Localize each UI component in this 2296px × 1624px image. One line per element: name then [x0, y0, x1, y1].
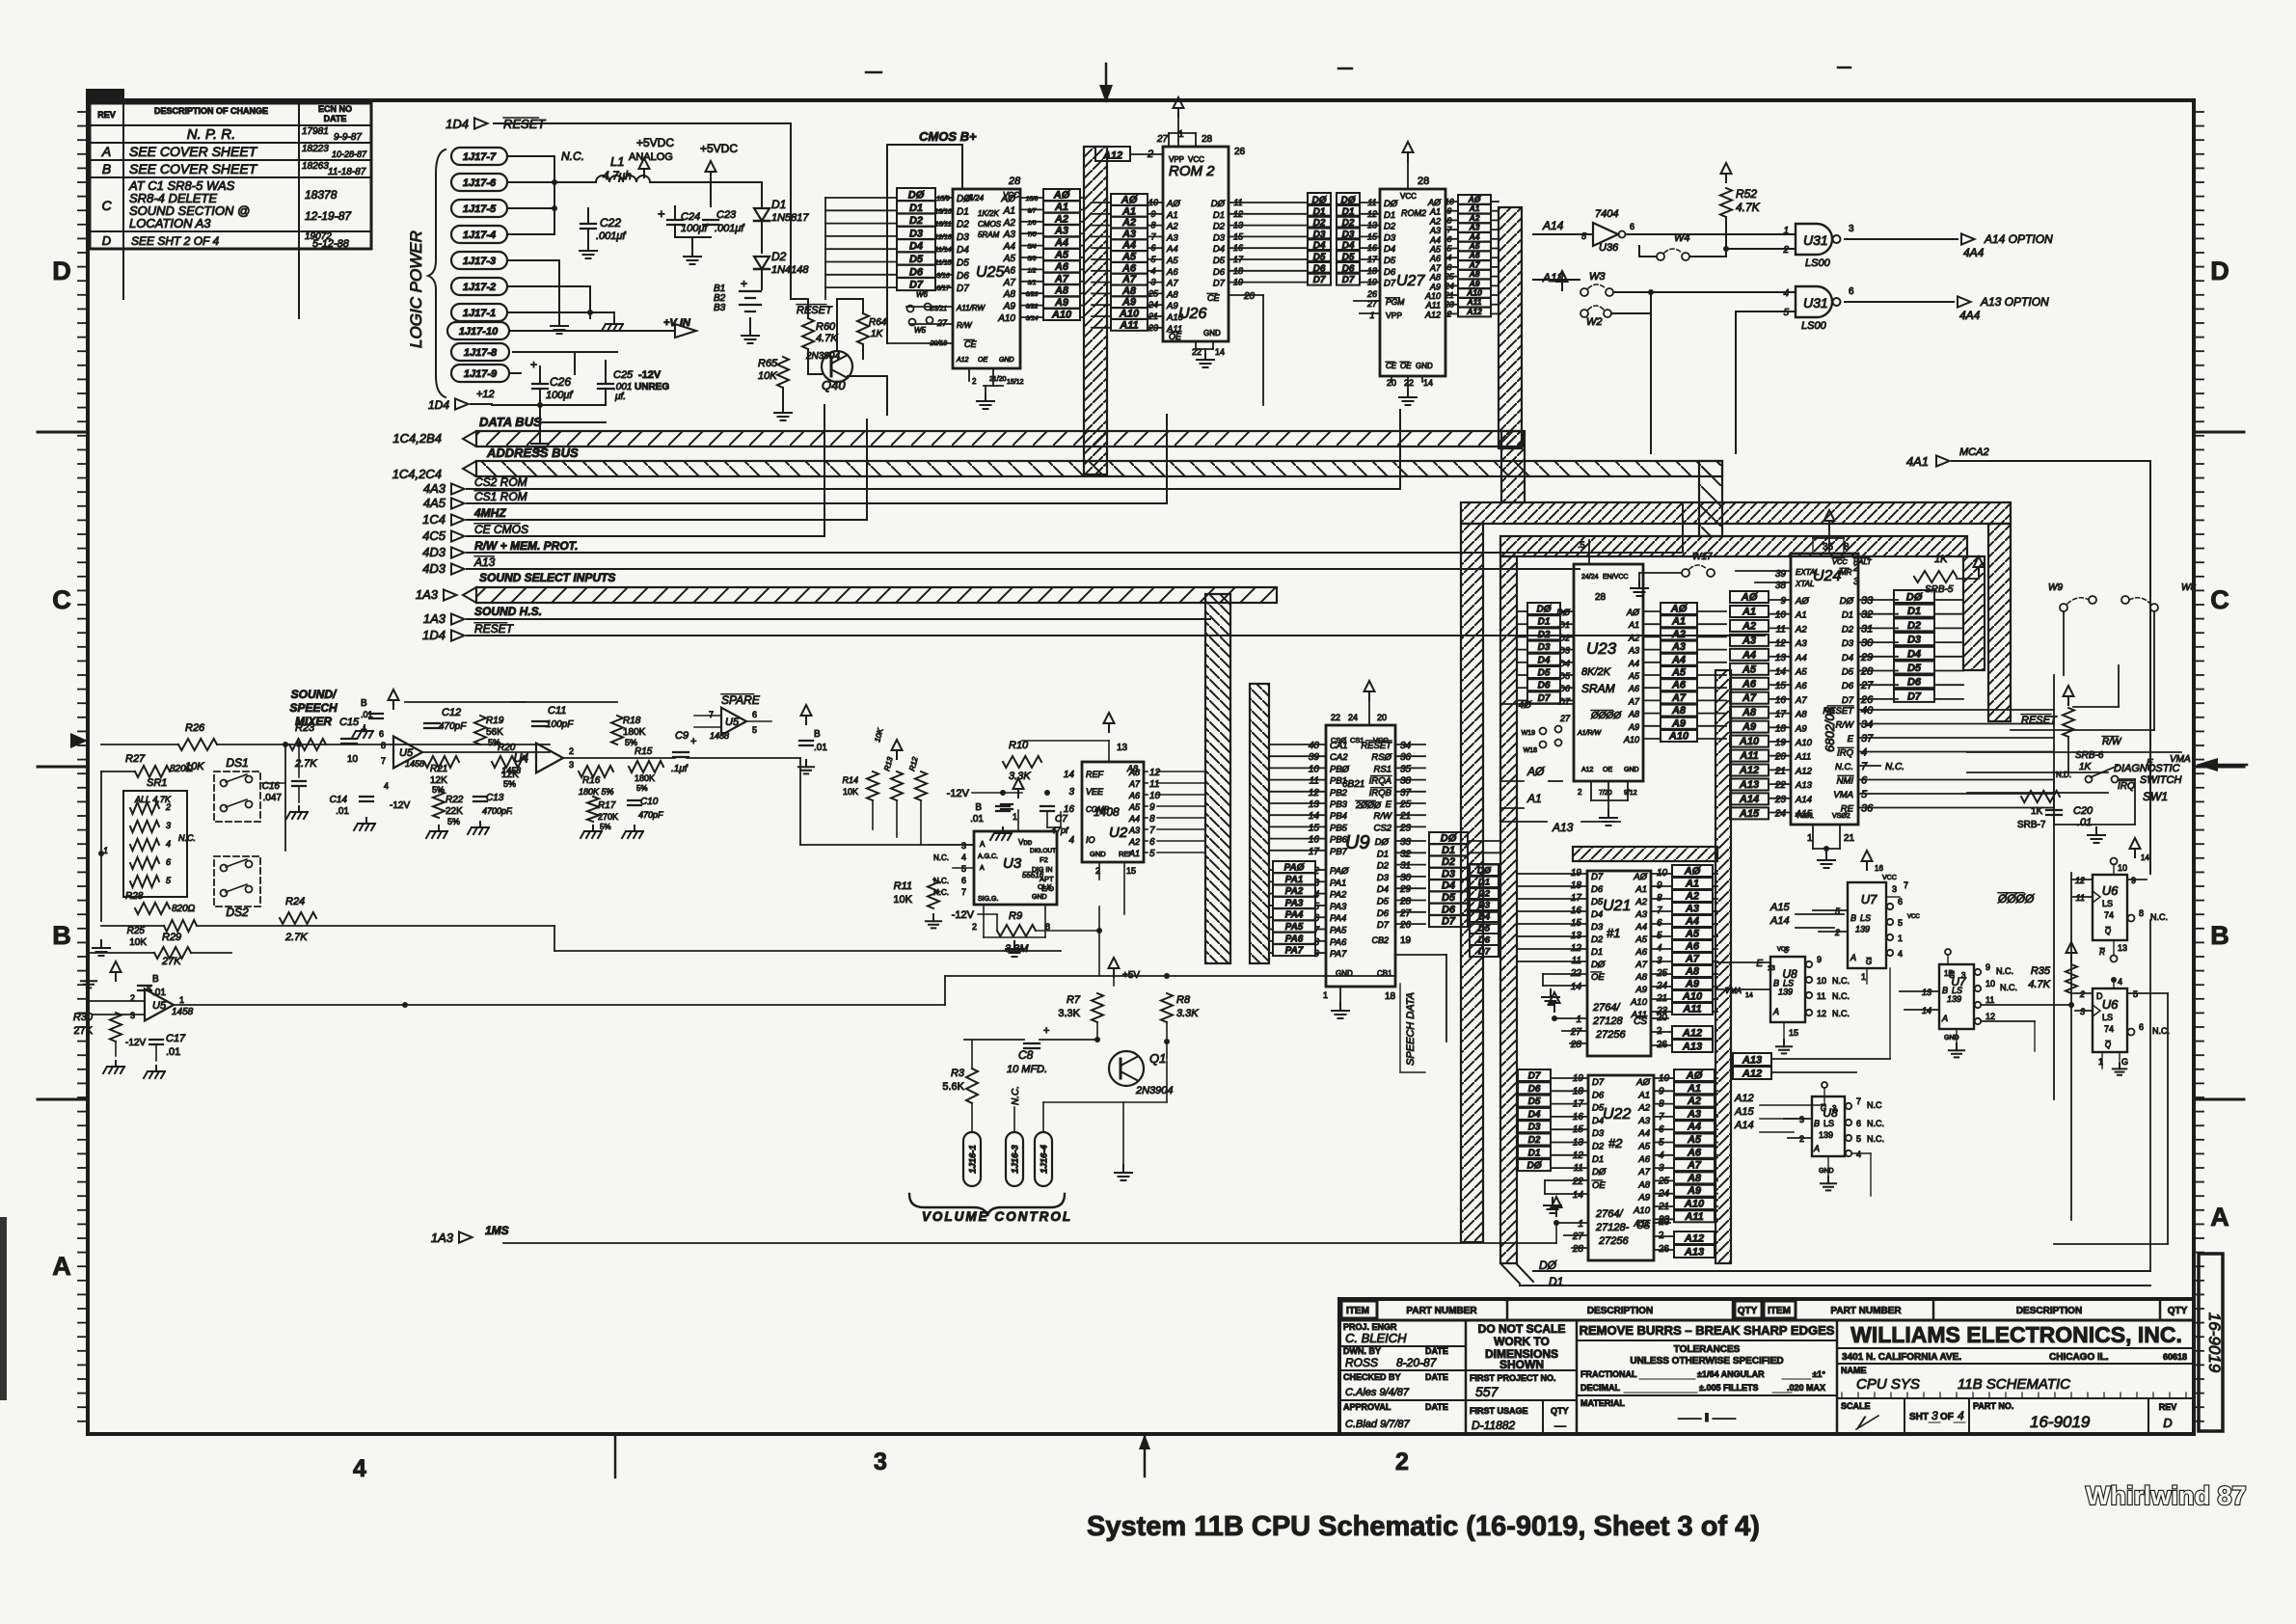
svg-text:-12V: -12V — [638, 369, 662, 381]
svg-text:D1: D1 — [1377, 849, 1389, 859]
svg-text:U36: U36 — [1599, 242, 1619, 254]
svg-text:N.C.: N.C. — [1835, 762, 1853, 772]
svg-text:D1: D1 — [1842, 610, 1853, 621]
svg-text:11: 11 — [1985, 995, 1994, 1005]
svg-text:28: 28 — [1860, 666, 1874, 678]
svg-text:NMI: NMI — [1837, 776, 1854, 787]
svg-text:22: 22 — [1774, 780, 1787, 791]
svg-text:DØ: DØ — [1477, 866, 1492, 877]
svg-text:A14: A14 — [1542, 219, 1564, 232]
svg-text:1C4: 1C4 — [422, 512, 446, 527]
svg-text:13: 13 — [1768, 965, 1775, 972]
svg-text:±1°: ±1° — [1812, 1369, 1825, 1379]
svg-text:D7: D7 — [1538, 693, 1551, 704]
svg-text:1458: 1458 — [405, 759, 424, 769]
svg-text:13: 13 — [2118, 943, 2127, 953]
svg-text:A: A — [1941, 1014, 1948, 1023]
svg-text:31: 31 — [1861, 623, 1873, 635]
svg-text:2: 2 — [1799, 1134, 1804, 1144]
svg-text:3: 3 — [1068, 787, 1074, 798]
svg-text:B: B — [814, 729, 821, 740]
svg-text:12-19-87: 12-19-87 — [305, 209, 352, 223]
svg-text:A11: A11 — [1425, 301, 1441, 311]
svg-text:A8: A8 — [1671, 705, 1687, 717]
svg-text:D5: D5 — [1377, 897, 1390, 907]
svg-text:D2: D2 — [1377, 861, 1390, 872]
svg-text:4A1: 4A1 — [1906, 454, 1929, 469]
svg-text:13/10: 13/10 — [934, 208, 952, 215]
svg-text:4: 4 — [2118, 977, 2122, 987]
svg-text:A5: A5 — [1637, 1142, 1650, 1152]
svg-text:A4: A4 — [1671, 654, 1686, 665]
svg-text:A10: A10 — [1623, 735, 1639, 744]
svg-text:180K: 180K — [623, 727, 646, 738]
svg-text:LS00: LS00 — [1801, 320, 1827, 332]
svg-text:12: 12 — [1149, 768, 1161, 778]
svg-text:D2: D2 — [1558, 633, 1570, 642]
svg-text:+: + — [658, 206, 665, 221]
svg-text:A15: A15 — [1734, 1106, 1754, 1118]
svg-text:1: 1 — [1783, 226, 1789, 236]
svg-text:A11: A11 — [1119, 319, 1138, 331]
svg-text:SW1: SW1 — [2143, 790, 2168, 803]
svg-text:27128-: 27128- — [1595, 1222, 1630, 1233]
svg-text:IRQA: IRQA — [1369, 776, 1391, 787]
svg-text:A: A — [52, 1252, 71, 1281]
svg-text:3/14: 3/14 — [1026, 315, 1039, 322]
svg-text:W2: W2 — [1586, 316, 1603, 328]
svg-text:ADDRESS BUS: ADDRESS BUS — [486, 446, 579, 460]
svg-text:D3: D3 — [1558, 646, 1570, 656]
svg-text:A1: A1 — [1637, 1090, 1650, 1100]
svg-text:R3: R3 — [951, 1068, 965, 1079]
svg-text:A4: A4 — [1121, 240, 1136, 252]
svg-text:A5: A5 — [1687, 1134, 1702, 1146]
svg-text:D7: D7 — [1342, 275, 1355, 285]
svg-text:A3: A3 — [1128, 826, 1140, 835]
svg-text:R/W: R/W — [1836, 720, 1855, 731]
svg-text:RESET: RESET — [474, 622, 515, 636]
svg-text:A8: A8 — [1003, 289, 1016, 300]
svg-text:AØ: AØ — [1468, 195, 1481, 204]
svg-text:B3: B3 — [714, 303, 726, 313]
svg-text:4: 4 — [1958, 1409, 1964, 1422]
svg-text:PA6: PA6 — [1285, 934, 1304, 944]
svg-text:5: 5 — [1149, 849, 1155, 859]
svg-text:12: 12 — [2075, 876, 2085, 885]
svg-text:D3: D3 — [1377, 873, 1390, 883]
svg-text:Vᴅᴅ: Vᴅᴅ — [1018, 838, 1033, 847]
svg-text:DØ: DØ — [1527, 1161, 1543, 1172]
svg-text:+: + — [741, 277, 747, 290]
svg-text:D2: D2 — [771, 250, 787, 263]
svg-text:12/13: 12/13 — [934, 234, 952, 241]
svg-text:A4: A4 — [1687, 1122, 1701, 1133]
svg-text:D7: D7 — [1592, 1077, 1605, 1088]
svg-text:3: 3 — [166, 821, 171, 830]
svg-text:PBØ: PBØ — [1330, 764, 1350, 774]
svg-text:7: 7 — [1149, 826, 1155, 836]
svg-text:10: 10 — [1149, 791, 1161, 801]
svg-text:RESET: RESET — [1361, 741, 1392, 751]
svg-text:R52: R52 — [1736, 187, 1757, 201]
svg-text:D2: D2 — [1478, 889, 1491, 900]
svg-text:35: 35 — [1400, 764, 1412, 774]
svg-text:REF: REF — [1086, 770, 1104, 779]
svg-text:A7: A7 — [1054, 273, 1069, 284]
svg-text:10-28-87: 10-28-87 — [332, 149, 367, 159]
svg-text:4: 4 — [1150, 266, 1155, 276]
svg-text:3/22: 3/22 — [1026, 304, 1039, 311]
svg-text:D4: D4 — [957, 245, 969, 256]
svg-text:R29: R29 — [162, 932, 181, 943]
svg-text:OF: OF — [1940, 1412, 1954, 1422]
svg-text:A1: A1 — [1526, 792, 1542, 805]
svg-text:A4: A4 — [1054, 237, 1068, 249]
svg-text:22: 22 — [1572, 1177, 1584, 1187]
svg-text:R18: R18 — [623, 716, 641, 726]
svg-text:27256: 27256 — [1598, 1235, 1629, 1247]
svg-text:FIRST USAGE: FIRST USAGE — [1470, 1406, 1528, 1416]
svg-text:A9: A9 — [1687, 1185, 1702, 1197]
svg-text:A7: A7 — [1628, 696, 1640, 706]
svg-text:37: 37 — [1400, 788, 1412, 798]
svg-text:11/14: 11/14 — [935, 247, 952, 254]
svg-text:D7: D7 — [1384, 279, 1396, 289]
svg-text:5/3: 5/3 — [1027, 256, 1036, 262]
svg-text:N.C.: N.C. — [1885, 762, 1904, 772]
svg-text:U2: U2 — [1109, 825, 1128, 841]
svg-text:A9: A9 — [1628, 722, 1639, 732]
svg-text:NAME: NAME — [1841, 1366, 1867, 1375]
svg-text:A7: A7 — [1687, 1160, 1702, 1172]
svg-text:D: D — [102, 233, 111, 248]
svg-text:11: 11 — [1817, 991, 1825, 1001]
svg-text:C. BLEICH: C. BLEICH — [1345, 1331, 1407, 1345]
svg-text:2: 2 — [1852, 563, 1859, 574]
svg-text:6: 6 — [1149, 837, 1155, 848]
svg-text:VMA: VMA — [1725, 987, 1742, 995]
svg-text:A2: A2 — [1003, 218, 1016, 229]
svg-text:A3: A3 — [1166, 232, 1178, 243]
svg-text:A3: A3 — [1637, 1116, 1650, 1126]
svg-text:1K: 1K — [871, 329, 884, 339]
svg-text:A2: A2 — [1121, 217, 1136, 229]
svg-text:15/8: 15/8 — [1026, 196, 1039, 203]
svg-text:AØ: AØ — [1684, 866, 1701, 878]
svg-text:D: D — [2096, 991, 2103, 1001]
svg-text:1K: 1K — [1934, 554, 1948, 565]
svg-text:A1: A1 — [1054, 202, 1068, 213]
svg-text:16: 16 — [1309, 835, 1320, 846]
svg-text:D2: D2 — [957, 220, 969, 230]
svg-text:C: C — [52, 585, 71, 614]
svg-text:13: 13 — [1117, 743, 1128, 753]
svg-text:D4: D4 — [1842, 653, 1853, 663]
svg-text:D3: D3 — [1592, 1128, 1605, 1139]
svg-text:A1: A1 — [1742, 607, 1756, 618]
svg-text:12: 12 — [1367, 209, 1377, 219]
svg-text:E: E — [1386, 799, 1392, 810]
svg-text:1458: 1458 — [501, 766, 521, 775]
svg-text:5: 5 — [961, 864, 966, 874]
svg-text:4MHZ: 4MHZ — [473, 506, 506, 520]
svg-text:.001μf: .001μf — [596, 230, 626, 242]
svg-text:D4: D4 — [1442, 880, 1455, 892]
svg-text:AØ: AØ — [1526, 765, 1545, 778]
svg-text:C13: C13 — [486, 793, 504, 803]
svg-text:R35: R35 — [2031, 965, 2051, 977]
svg-text:D4: D4 — [1213, 244, 1225, 255]
svg-text:N.C: N.C — [1867, 1100, 1882, 1110]
svg-text:U22: U22 — [1603, 1106, 1631, 1123]
svg-text:N.C.: N.C. — [2000, 983, 2017, 992]
svg-text:24: 24 — [1774, 809, 1787, 820]
svg-text:REV: REV — [97, 110, 116, 120]
svg-text:A4: A4 — [1795, 653, 1807, 663]
svg-text:3.3K: 3.3K — [1009, 771, 1031, 782]
svg-text:1K: 1K — [2031, 806, 2043, 817]
svg-text:Q: Q — [2105, 1041, 2111, 1049]
svg-text:D5: D5 — [1538, 668, 1551, 679]
svg-text:4.7K: 4.7K — [816, 333, 838, 344]
svg-text:1J16-3: 1J16-3 — [1010, 1144, 1020, 1173]
svg-text:D2: D2 — [1592, 1142, 1605, 1152]
svg-text:VCC: VCC — [1907, 914, 1920, 920]
svg-text:2: 2 — [569, 746, 574, 756]
svg-text:PA6: PA6 — [1330, 937, 1347, 948]
svg-text:17: 17 — [1775, 710, 1787, 720]
svg-text:PA4: PA4 — [1285, 910, 1304, 921]
svg-text:D3: D3 — [1213, 232, 1226, 243]
svg-text:D6: D6 — [1377, 908, 1390, 919]
svg-text:U5: U5 — [399, 747, 414, 759]
svg-text:19: 19 — [1775, 738, 1787, 748]
svg-text:13: 13 — [1922, 988, 1931, 997]
svg-text:28: 28 — [1595, 592, 1607, 603]
svg-text:VPP: VPP — [1169, 155, 1184, 164]
svg-text:N.C.: N.C. — [1832, 976, 1850, 986]
svg-text:D7: D7 — [1528, 1071, 1541, 1082]
svg-text:15: 15 — [1126, 866, 1136, 876]
svg-text:ITEM: ITEM — [1768, 1306, 1791, 1316]
svg-text:2: 2 — [165, 802, 171, 812]
svg-text:D4: D4 — [1591, 909, 1603, 920]
svg-text:AØ: AØ — [1795, 596, 1809, 607]
svg-text:U25: U25 — [976, 264, 1004, 281]
svg-text:D5: D5 — [1842, 667, 1854, 678]
svg-text:DATE: DATE — [1425, 1346, 1448, 1356]
svg-text:N.C.: N.C. — [933, 853, 949, 862]
svg-text:1D4: 1D4 — [428, 398, 449, 412]
svg-text:U31: U31 — [1803, 232, 1828, 248]
svg-text:A7: A7 — [1166, 279, 1178, 289]
svg-text:A1: A1 — [1121, 205, 1136, 217]
svg-text:10K: 10K — [843, 787, 858, 797]
svg-text:A5: A5 — [1054, 250, 1069, 261]
svg-text:16-9019: 16-9019 — [2205, 1313, 2224, 1373]
svg-text:IRQB: IRQB — [1369, 788, 1392, 798]
svg-text:QTY: QTY — [1551, 1406, 1569, 1416]
svg-text:DØ: DØ — [1557, 608, 1571, 617]
svg-text:27: 27 — [1860, 680, 1874, 691]
svg-text:μf.: μf. — [614, 392, 626, 402]
svg-text:9/12: 9/12 — [1624, 790, 1637, 797]
svg-text:A3: A3 — [1628, 646, 1639, 656]
svg-text:REV: REV — [2159, 1402, 2177, 1412]
svg-text:4: 4 — [1068, 835, 1074, 846]
svg-text:A8: A8 — [1628, 710, 1639, 719]
svg-text:34: 34 — [1400, 741, 1412, 751]
svg-text:SRB-6: SRB-6 — [2075, 750, 2104, 761]
svg-text:PB6: PB6 — [1330, 835, 1348, 846]
svg-text:5: 5 — [1898, 918, 1903, 928]
svg-text:1: 1 — [179, 995, 184, 1005]
svg-text:Q1: Q1 — [1149, 1051, 1166, 1066]
svg-text:D1: D1 — [1592, 1154, 1604, 1165]
svg-text:8-20-87: 8-20-87 — [1396, 1356, 1438, 1369]
svg-text:R: R — [2099, 948, 2105, 957]
svg-text:18: 18 — [1385, 991, 1396, 1002]
svg-text:14: 14 — [1215, 347, 1225, 357]
svg-text:D3: D3 — [1528, 1123, 1541, 1133]
svg-text:4A5: 4A5 — [423, 496, 446, 510]
svg-text:A2: A2 — [1685, 891, 1699, 903]
svg-text:+: + — [530, 358, 537, 371]
svg-text:D1: D1 — [957, 206, 969, 217]
svg-text:270K: 270K — [598, 812, 618, 822]
svg-text:A: A — [980, 865, 985, 872]
svg-text:DIAGNOSTIC: DIAGNOSTIC — [2114, 763, 2180, 774]
svg-text:14: 14 — [2141, 853, 2149, 862]
svg-text:+: + — [1043, 1025, 1049, 1037]
svg-text:A1/R/W: A1/R/W — [1577, 730, 1603, 737]
svg-text:8: 8 — [147, 985, 151, 993]
svg-text:B: B — [2210, 921, 2229, 950]
svg-text:R24: R24 — [285, 896, 305, 907]
svg-text:3: 3 — [1150, 278, 1155, 287]
svg-text:A8: A8 — [1795, 710, 1807, 720]
svg-text:1/6: 1/6 — [1027, 220, 1036, 227]
svg-text:.01: .01 — [970, 814, 984, 825]
svg-text:28: 28 — [1202, 134, 1213, 145]
svg-text:D6: D6 — [1907, 677, 1922, 689]
svg-text:5%: 5% — [600, 823, 611, 831]
svg-text:A9: A9 — [1003, 302, 1016, 312]
svg-text:7/20: 7/20 — [1599, 790, 1612, 797]
svg-text:D1: D1 — [909, 203, 923, 214]
svg-text:9: 9 — [1817, 955, 1822, 964]
svg-text:1J17-3: 1J17-3 — [463, 256, 496, 267]
svg-text:D2: D2 — [1213, 222, 1226, 232]
svg-text:27: 27 — [1570, 1027, 1582, 1038]
svg-text:A3: A3 — [1687, 1108, 1701, 1120]
svg-text:A: A — [101, 144, 111, 159]
svg-text:D6: D6 — [957, 271, 969, 282]
svg-text:A12: A12 — [1742, 1069, 1762, 1080]
svg-text:A6: A6 — [1687, 1147, 1702, 1158]
svg-text:CLK: CLK — [1038, 882, 1052, 891]
svg-text:10K: 10K — [893, 894, 912, 906]
svg-text:6: 6 — [1898, 897, 1903, 907]
svg-text:470pF: 470pF — [638, 810, 663, 820]
svg-text:D4: D4 — [909, 241, 923, 253]
svg-text:D6: D6 — [1558, 684, 1570, 693]
svg-text:C23: C23 — [716, 209, 737, 221]
svg-text:A6: A6 — [1121, 262, 1137, 274]
svg-text:A9: A9 — [1469, 279, 1480, 288]
svg-text:A6: A6 — [1166, 267, 1178, 278]
svg-text:VSØ1: VSØ1 — [1796, 813, 1814, 820]
svg-text:PAØ: PAØ — [1284, 863, 1306, 874]
svg-text:7: 7 — [1861, 761, 1868, 772]
svg-text:15: 15 — [1309, 823, 1320, 833]
svg-text:C26: C26 — [550, 375, 571, 389]
svg-text:17: 17 — [1309, 847, 1320, 857]
svg-text:3/17: 3/17 — [936, 285, 951, 292]
svg-text:AØ: AØ — [1670, 604, 1688, 615]
svg-text:D2: D2 — [1591, 934, 1604, 945]
svg-text:GND: GND — [1203, 329, 1221, 338]
svg-text:1J17-8: 1J17-8 — [464, 347, 498, 359]
svg-text:D1: D1 — [1442, 845, 1455, 856]
svg-text:DØ: DØ — [1539, 1259, 1557, 1272]
svg-text:A13: A13 — [473, 555, 496, 569]
svg-text:N.C.: N.C. — [1867, 1119, 1884, 1128]
svg-text:A4: A4 — [1742, 649, 1756, 661]
svg-text:5%: 5% — [503, 779, 516, 789]
svg-text:DØ: DØ — [1384, 199, 1398, 209]
svg-text:1458: 1458 — [710, 731, 729, 741]
svg-text:DECIMAL: DECIMAL — [1580, 1383, 1620, 1393]
svg-text:820Ω: 820Ω — [172, 904, 196, 914]
svg-text:A15: A15 — [1739, 808, 1760, 820]
svg-text:15: 15 — [1944, 969, 1953, 978]
svg-text:20: 20 — [1243, 291, 1256, 302]
svg-text:ITEM: ITEM — [1346, 1306, 1369, 1316]
svg-text:A6: A6 — [1628, 684, 1639, 693]
svg-text:A1: A1 — [1685, 879, 1699, 890]
svg-text:AØ: AØ — [1121, 195, 1138, 206]
svg-text:+5VDC: +5VDC — [700, 142, 738, 155]
svg-text:N. P. R.: N. P. R. — [187, 126, 236, 143]
svg-text:A11: A11 — [1795, 752, 1811, 763]
svg-text:39: 39 — [1309, 752, 1320, 763]
svg-text:1J17-7: 1J17-7 — [463, 151, 497, 163]
svg-text:D1: D1 — [1538, 617, 1551, 628]
svg-text:U31: U31 — [1803, 295, 1828, 311]
svg-text:D6: D6 — [1538, 681, 1551, 691]
svg-text:34: 34 — [1861, 719, 1873, 731]
svg-text:A9: A9 — [1671, 717, 1687, 729]
svg-text:24: 24 — [1148, 300, 1158, 310]
svg-text:UNLESS OTHERWISE SPECIFIED: UNLESS OTHERWISE SPECIFIED — [1630, 1356, 1783, 1367]
svg-text:SHT: SHT — [1909, 1412, 1929, 1422]
svg-text:D3: D3 — [909, 228, 923, 239]
svg-text:9/7: 9/7 — [1027, 207, 1036, 214]
svg-text:U5: U5 — [152, 1000, 167, 1012]
svg-text:A10: A10 — [1119, 309, 1140, 320]
svg-text:A14: A14 — [1734, 1120, 1754, 1131]
svg-text:27: 27 — [1559, 714, 1571, 723]
svg-text:A12: A12 — [1682, 1028, 1702, 1040]
svg-text:A: A — [980, 840, 986, 849]
svg-text:AØ: AØ — [1741, 592, 1758, 604]
svg-text:7: 7 — [1856, 1096, 1861, 1106]
svg-text:U9: U9 — [1345, 832, 1370, 853]
svg-text:A.G.C.: A.G.C. — [978, 853, 998, 860]
svg-text:17: 17 — [1367, 255, 1378, 264]
